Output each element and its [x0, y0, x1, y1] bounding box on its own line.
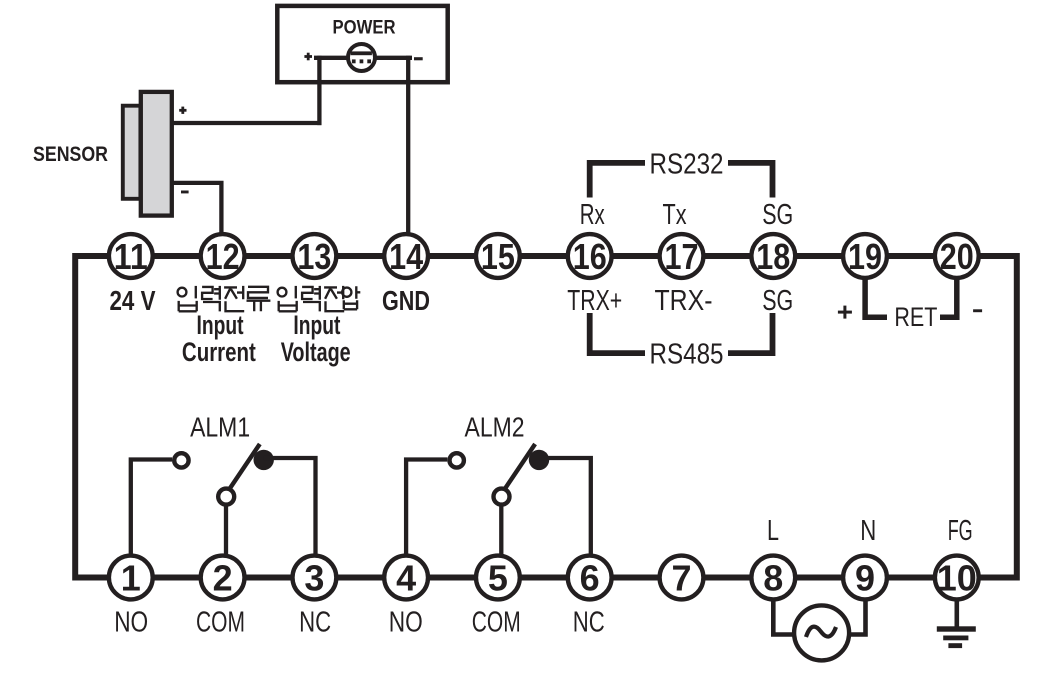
wire terminal 5 to pivot — [499, 502, 503, 555]
wire power positive drop — [317, 56, 321, 125]
svg-text:RET: RET — [894, 302, 937, 332]
svg-text:12: 12 — [206, 236, 240, 277]
svg-text:POWER: POWER — [333, 18, 396, 39]
terminal 16 — [568, 234, 612, 278]
RET - polarity mark — [973, 309, 982, 312]
svg-text:4: 4 — [396, 557, 416, 598]
svg-text:24 V: 24 V — [110, 285, 156, 316]
svg-text:15: 15 — [481, 236, 515, 277]
power supply box — [277, 6, 447, 82]
terminal 3 — [293, 556, 337, 600]
sensor body — [123, 92, 172, 216]
svg-text:17: 17 — [665, 236, 699, 277]
svg-text:Tx: Tx — [663, 199, 687, 231]
sensor - polarity mark — [181, 191, 189, 194]
power + polarity mark — [304, 53, 312, 61]
terminal 14 — [384, 234, 428, 278]
svg-text:1: 1 — [121, 557, 141, 598]
terminal 19 — [843, 234, 887, 278]
terminal 13 — [293, 234, 337, 278]
relay ALM2 NO contact — [450, 453, 464, 467]
svg-text:11: 11 — [114, 236, 148, 277]
svg-text:3: 3 — [304, 557, 324, 598]
relay ALM1 lever — [230, 444, 260, 489]
svg-text:RS232: RS232 — [650, 148, 724, 180]
power - polarity mark — [414, 57, 423, 60]
svg-text:ALM2: ALM2 — [465, 411, 525, 442]
svg-text:N: N — [860, 515, 876, 547]
svg-text:Rx: Rx — [580, 199, 605, 231]
terminal 10 — [935, 556, 979, 600]
RS232 bracket right — [728, 163, 773, 198]
label Korean input voltage (입력전압) — [278, 286, 361, 312]
terminal 12 — [201, 234, 245, 278]
svg-text:NC: NC — [299, 607, 331, 639]
svg-text:L: L — [767, 515, 779, 547]
dc power source symbol U1 — [348, 44, 375, 71]
svg-text:NC: NC — [573, 607, 605, 639]
terminal 5 — [476, 556, 520, 600]
relay ALM1 NO contact — [174, 453, 188, 467]
earth ground symbol — [937, 626, 976, 648]
svg-text:2: 2 — [213, 557, 233, 598]
wire terminal 10 to ground — [954, 600, 959, 628]
svg-text:GND: GND — [382, 285, 430, 316]
label Korean input current (입력전류) — [178, 286, 271, 312]
wire sensor positive — [172, 121, 322, 125]
svg-text:TRX+: TRX+ — [567, 285, 622, 317]
svg-text:16: 16 — [573, 236, 607, 277]
svg-text:RS485: RS485 — [650, 339, 724, 371]
svg-text:18: 18 — [756, 236, 790, 277]
terminal 7 — [660, 556, 704, 600]
svg-text:9: 9 — [855, 557, 875, 598]
terminal 8 — [751, 556, 795, 600]
svg-text:7: 7 — [671, 557, 691, 598]
svg-text:COM: COM — [196, 607, 245, 639]
wire terminal 8 to AC source — [773, 600, 794, 635]
RS485 bracket right — [728, 313, 773, 353]
wire power negative to terminal 14 — [406, 56, 410, 233]
outer supply loop wire — [75, 256, 1017, 578]
svg-text:Input: Input — [293, 310, 340, 340]
svg-text:NO: NO — [114, 607, 148, 639]
terminal 15 — [476, 234, 520, 278]
RS232 bracket left — [590, 163, 645, 198]
relay ALM1 NC contact — [254, 450, 274, 470]
svg-text:Input: Input — [197, 310, 244, 340]
wire terminal 4 to NO contact — [406, 460, 447, 556]
svg-text:5: 5 — [488, 557, 508, 598]
terminal 9 — [843, 556, 887, 600]
RS485 bracket left — [590, 313, 645, 353]
svg-text:14: 14 — [389, 236, 423, 277]
svg-text:Voltage: Voltage — [281, 337, 351, 367]
wire terminal 2 to pivot — [224, 502, 228, 555]
RET + polarity mark — [838, 306, 852, 319]
svg-text:NO: NO — [389, 607, 423, 639]
terminal 2 — [201, 556, 245, 600]
svg-text:19: 19 — [848, 236, 882, 277]
relay ALM2 pivot contact — [494, 489, 510, 505]
terminal 1 — [109, 556, 153, 600]
wire terminal 1 to NO contact — [131, 460, 172, 556]
terminal 11 — [109, 234, 153, 278]
relay ALM2 lever — [505, 444, 535, 489]
wire RET positive from terminal 19 — [865, 278, 887, 317]
svg-text:10: 10 — [937, 557, 977, 598]
wire NC contact to terminal 6 — [539, 458, 591, 555]
wire NC contact to terminal 3 — [264, 458, 316, 555]
svg-text:FG: FG — [948, 515, 973, 547]
wire sensor negative to terminal 12 — [172, 183, 221, 233]
wire RET negative from terminal 20 — [940, 278, 957, 317]
relay ALM1 pivot contact — [218, 489, 234, 505]
svg-text:20: 20 — [940, 236, 974, 277]
svg-text:13: 13 — [297, 236, 331, 277]
svg-text:ALM1: ALM1 — [190, 411, 250, 442]
svg-text:COM: COM — [472, 607, 521, 639]
relay ALM2 NC contact — [529, 450, 549, 470]
terminal 18 — [751, 234, 795, 278]
svg-text:Current: Current — [182, 337, 256, 367]
svg-text:SG: SG — [762, 285, 793, 317]
sensor + polarity mark — [179, 107, 186, 114]
terminal 6 — [568, 556, 612, 600]
wire power positive horizontal — [314, 56, 412, 60]
svg-text:TRX-: TRX- — [655, 285, 713, 317]
svg-text:6: 6 — [580, 557, 600, 598]
wire terminal 9 to AC source — [849, 600, 866, 635]
svg-text:8: 8 — [763, 557, 783, 598]
terminal 20 — [935, 234, 979, 278]
svg-text:SENSOR: SENSOR — [33, 143, 108, 166]
terminal 4 — [384, 556, 428, 600]
svg-text:SG: SG — [762, 199, 793, 231]
terminal 17 — [660, 234, 704, 278]
AC source symbol — [794, 605, 849, 660]
